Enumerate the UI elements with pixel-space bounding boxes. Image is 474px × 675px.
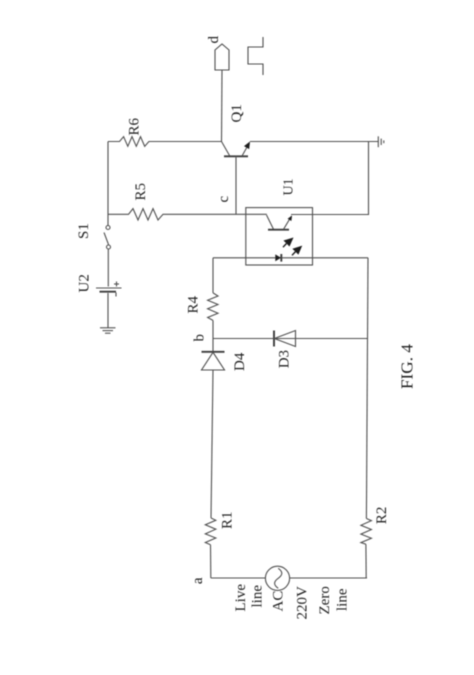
svg-text:line: line: [335, 588, 351, 611]
svg-text:c: c: [216, 196, 232, 203]
svg-text:S1: S1: [76, 223, 92, 239]
svg-text:AC: AC: [271, 591, 287, 612]
svg-text:R5: R5: [133, 183, 149, 201]
svg-text:220V: 220V: [295, 586, 311, 620]
svg-text:D4: D4: [232, 352, 248, 371]
svg-text:FIG. 4: FIG. 4: [398, 344, 417, 389]
svg-text:a: a: [190, 577, 206, 584]
svg-text:b: b: [192, 334, 208, 342]
svg-text:D3: D3: [277, 350, 293, 368]
svg-text:U2: U2: [77, 274, 93, 292]
svg-text:d: d: [206, 36, 222, 44]
svg-text:R4: R4: [186, 295, 202, 313]
svg-text:R6: R6: [127, 117, 143, 135]
svg-text:U1: U1: [282, 178, 297, 195]
svg-text:line: line: [250, 585, 266, 608]
svg-text:Q1: Q1: [229, 104, 245, 122]
svg-text:Zero: Zero: [317, 586, 333, 614]
svg-text:R2: R2: [374, 507, 390, 525]
svg-text:Live: Live: [233, 584, 249, 612]
svg-text:R1: R1: [220, 511, 236, 529]
